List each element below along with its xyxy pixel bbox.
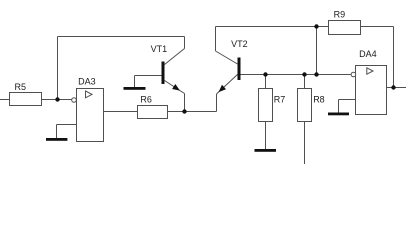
- svg-text:R6: R6: [140, 95, 152, 105]
- svg-text:DA4: DA4: [359, 49, 377, 59]
- svg-text:VT2: VT2: [231, 39, 248, 49]
- svg-text:R9: R9: [334, 9, 346, 19]
- svg-text:DA3: DA3: [78, 76, 96, 86]
- svg-text:VT1: VT1: [151, 44, 168, 54]
- svg-text:R7: R7: [274, 95, 286, 105]
- svg-text:R8: R8: [313, 95, 325, 105]
- svg-text:R5: R5: [15, 82, 27, 92]
